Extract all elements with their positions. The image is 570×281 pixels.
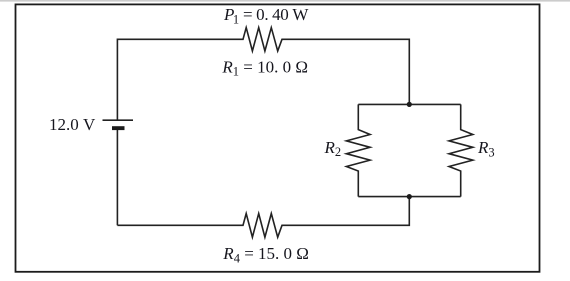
svg-text:P1 = 0. 40 W: P1 = 0. 40 W <box>223 5 309 26</box>
svg-text:R1 = 10. 0 Ω: R1 = 10. 0 Ω <box>221 58 308 79</box>
svg-text:12.0 V: 12.0 V <box>49 115 96 134</box>
svg-text:R2: R2 <box>324 138 342 159</box>
svg-text:R4 = 15. 0 Ω: R4 = 15. 0 Ω <box>222 244 309 265</box>
svg-text:R3: R3 <box>477 138 495 159</box>
